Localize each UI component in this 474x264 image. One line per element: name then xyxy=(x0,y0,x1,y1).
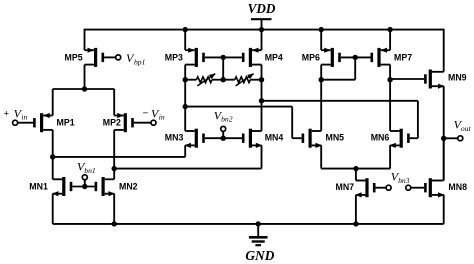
wire MP1 source up xyxy=(52,89,54,116)
wire Vbn1 stub xyxy=(84,180,86,187)
wire MN4 source down-left xyxy=(261,145,263,168)
wire MN8 drain up xyxy=(443,138,445,180)
svg-text:MN9: MN9 xyxy=(448,73,467,83)
svg-text:out: out xyxy=(461,124,472,133)
label MN4 xyxy=(265,133,284,143)
label MN7 xyxy=(336,182,355,192)
wire Vout lead xyxy=(444,137,458,139)
svg-text:bp1: bp1 xyxy=(134,57,145,66)
wire line B MP3 drain to MN5 gate xyxy=(185,107,292,139)
svg-text:in: in xyxy=(159,112,165,121)
wire MP5 source to VDD xyxy=(84,29,86,51)
svg-text:MP2: MP2 xyxy=(103,118,121,128)
wire MN7 source down xyxy=(355,195,357,224)
wire MP2 source up xyxy=(113,89,115,116)
wire MP2 drain down xyxy=(113,130,115,179)
node MP2 drain / MN4 source xyxy=(112,166,117,171)
svg-text:+: + xyxy=(4,108,10,119)
terminal Vbp1 xyxy=(116,55,121,60)
label Vbn3 xyxy=(391,170,410,185)
wire MN3 source down-left xyxy=(184,145,186,157)
wire MP5 gate lead xyxy=(104,56,116,58)
wire MP3 drain down xyxy=(184,65,186,131)
wire MP6 diode tie xyxy=(321,57,355,79)
wire MN7 gate lead xyxy=(376,187,387,189)
transistor MP1 xyxy=(33,113,53,132)
transistor MN7 xyxy=(355,178,375,197)
transistor MN2 xyxy=(95,177,115,196)
wire MP2 gate lead xyxy=(134,122,151,124)
node MP3 drain resistor tap xyxy=(183,77,188,82)
wire MP6 drain down xyxy=(320,65,322,131)
wire MN5 gate lead xyxy=(292,137,301,139)
terminal Vbn1 xyxy=(82,175,87,180)
terminal -Vin xyxy=(151,120,156,125)
transistor MN8 xyxy=(424,178,444,197)
power VDD symbol xyxy=(248,1,276,30)
node MN2 source on GND rail xyxy=(112,221,117,226)
node tail junction xyxy=(82,86,87,91)
wire line A MP4 drain to MN6 gate xyxy=(262,101,418,138)
svg-text:MP5: MP5 xyxy=(65,52,83,62)
svg-text:MP3: MP3 xyxy=(165,52,183,62)
svg-text:MN8: MN8 xyxy=(448,182,467,192)
node GND tap xyxy=(256,221,261,226)
node MP4 source on VDD rail xyxy=(259,27,264,32)
terminal Vbn2 xyxy=(221,126,226,131)
wire MN9 source down xyxy=(443,86,445,180)
transistor MP4 xyxy=(242,48,262,67)
wire MN3-MN4 gate line xyxy=(205,137,242,139)
wire MP7 source up xyxy=(389,30,391,51)
label Vbn1 xyxy=(77,159,96,175)
transistor MN1 xyxy=(52,177,72,196)
node MP3 drain line-B tap xyxy=(183,104,188,109)
svg-text:GND: GND xyxy=(245,248,274,263)
wire MP1 gate lead xyxy=(18,122,34,124)
label MN9 xyxy=(448,73,467,83)
transistor MP5 xyxy=(85,48,105,67)
wire MP1 drain down xyxy=(52,130,54,179)
node MP4 drain line-A tap xyxy=(259,98,264,103)
terminal Vout xyxy=(458,136,463,141)
svg-text:bn2: bn2 xyxy=(221,115,233,124)
wire MN5 source down xyxy=(320,145,322,168)
svg-text:MN1: MN1 xyxy=(29,182,48,192)
label MN2 xyxy=(119,182,138,192)
ground xyxy=(249,224,268,245)
node MP7 drain junction xyxy=(387,77,392,82)
wire MN1 source down xyxy=(52,194,54,224)
label MP1 xyxy=(57,118,75,128)
wire Vbn2 stub xyxy=(222,131,224,138)
svg-text:in: in xyxy=(21,112,27,121)
svg-text:bn1: bn1 xyxy=(84,166,95,175)
wire tail current line xyxy=(53,88,114,90)
transistor MN9 xyxy=(424,70,444,89)
label GND xyxy=(245,248,274,263)
wire GND rail xyxy=(53,223,444,225)
wire MN6 source down xyxy=(389,145,391,168)
label +Vin xyxy=(4,106,28,121)
node MP6 drain junction xyxy=(319,77,324,82)
wire MP7 drain down xyxy=(389,65,391,131)
svg-text:MN3: MN3 xyxy=(165,133,184,143)
label MN1 xyxy=(29,182,48,192)
transistor MP7 xyxy=(371,48,391,67)
node output node xyxy=(441,136,446,141)
wire MN8 source down xyxy=(443,195,445,224)
svg-text:MN6: MN6 xyxy=(371,133,390,143)
wire MN6 gate lead xyxy=(410,137,418,139)
node MP3-MP4 gate junction xyxy=(221,55,226,60)
node MN1-MN2 gate junction xyxy=(82,184,87,189)
wire MN7 drain up xyxy=(355,169,357,181)
node MP1 drain / MN3 source xyxy=(50,154,55,159)
wire MN5-MN6 source line xyxy=(321,168,390,170)
resistor R2 (variable) xyxy=(223,74,261,86)
node MP6-MP7 gate junction xyxy=(353,55,358,60)
label MN6 xyxy=(371,133,390,143)
wire MP6 source up xyxy=(320,30,322,51)
transistor MN6 xyxy=(389,129,409,148)
svg-text:MN2: MN2 xyxy=(119,182,138,192)
svg-text:−: − xyxy=(143,108,149,119)
label MP6 xyxy=(302,52,320,62)
terminal Vbn3 left xyxy=(386,185,391,190)
wire MN4 source line xyxy=(114,168,261,170)
wire gate junction to resistor mid xyxy=(222,57,224,79)
wire MP3-MP4 gate line xyxy=(205,56,242,58)
svg-text:MP1: MP1 xyxy=(57,118,75,128)
node MP6 source on VDD rail xyxy=(319,27,324,32)
wire MP4 drain down xyxy=(261,65,263,131)
node MP4 drain resistor tap xyxy=(259,77,264,82)
wire MN9 drain up xyxy=(443,29,445,72)
svg-text:MP4: MP4 xyxy=(265,52,283,62)
svg-text:MP6: MP6 xyxy=(302,52,320,62)
node MP7 source on VDD rail xyxy=(387,27,392,32)
transistor MN3 xyxy=(184,129,204,148)
wire MN9 gate lead xyxy=(390,78,424,80)
terminal Vbn3 right xyxy=(406,185,411,190)
svg-text:MN7: MN7 xyxy=(336,182,355,192)
label -Vin xyxy=(143,106,165,121)
resistor R1 (variable) xyxy=(185,74,223,86)
transistor MN5 xyxy=(302,129,322,148)
terminal +Vin xyxy=(13,120,18,125)
svg-text:MN4: MN4 xyxy=(265,133,284,143)
label MN3 xyxy=(165,133,184,143)
svg-text:MP7: MP7 xyxy=(394,52,412,62)
label MP3 xyxy=(165,52,183,62)
label MP4 xyxy=(265,52,283,62)
svg-text:bn3: bn3 xyxy=(398,176,410,185)
label MN8 xyxy=(448,182,467,192)
label MN5 xyxy=(326,133,345,143)
node resistor midpoint xyxy=(221,77,226,82)
label Vbn2 xyxy=(214,108,233,123)
transistor MN4 xyxy=(242,129,262,148)
label Vbp1 xyxy=(126,51,145,66)
label Vout xyxy=(454,118,472,133)
wire MP6-MP7 gate line xyxy=(341,56,371,58)
transistor MP2 xyxy=(114,113,134,132)
node MN7 drain junction xyxy=(353,166,358,171)
node MP3 source on VDD rail xyxy=(183,27,188,32)
wire MP4 source up xyxy=(261,30,263,51)
wire MN3 source line xyxy=(53,156,186,158)
label MP5 xyxy=(65,52,83,62)
node MN7 source on GND rail xyxy=(353,221,358,226)
label MP2 xyxy=(103,118,121,128)
wire MP3 source up xyxy=(184,30,186,51)
wire VDD rail xyxy=(85,29,444,31)
wire MP5 drain down xyxy=(84,65,86,89)
transistor MP3 xyxy=(185,48,205,67)
wire MN1-MN2 gate line xyxy=(72,186,94,188)
wire MN2 source down xyxy=(113,194,115,224)
label MP7 xyxy=(394,52,412,62)
svg-text:VDD: VDD xyxy=(248,1,276,16)
transistor MP6 xyxy=(321,48,341,67)
svg-text:MN5: MN5 xyxy=(326,133,345,143)
wire MN8 gate lead xyxy=(411,187,424,189)
node MN3-MN4 gate junction xyxy=(221,136,226,141)
